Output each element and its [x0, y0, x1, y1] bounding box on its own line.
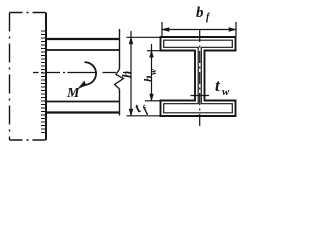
svg-text:h: h [141, 75, 155, 82]
svg-text:b: b [196, 5, 204, 21]
svg-text:w: w [222, 86, 230, 98]
svg-text:h: h [119, 71, 134, 78]
svg-text:t: t [215, 76, 221, 95]
svg-text:w: w [148, 68, 158, 75]
svg-text:M: M [66, 86, 80, 101]
svg-text:f: f [206, 12, 211, 23]
